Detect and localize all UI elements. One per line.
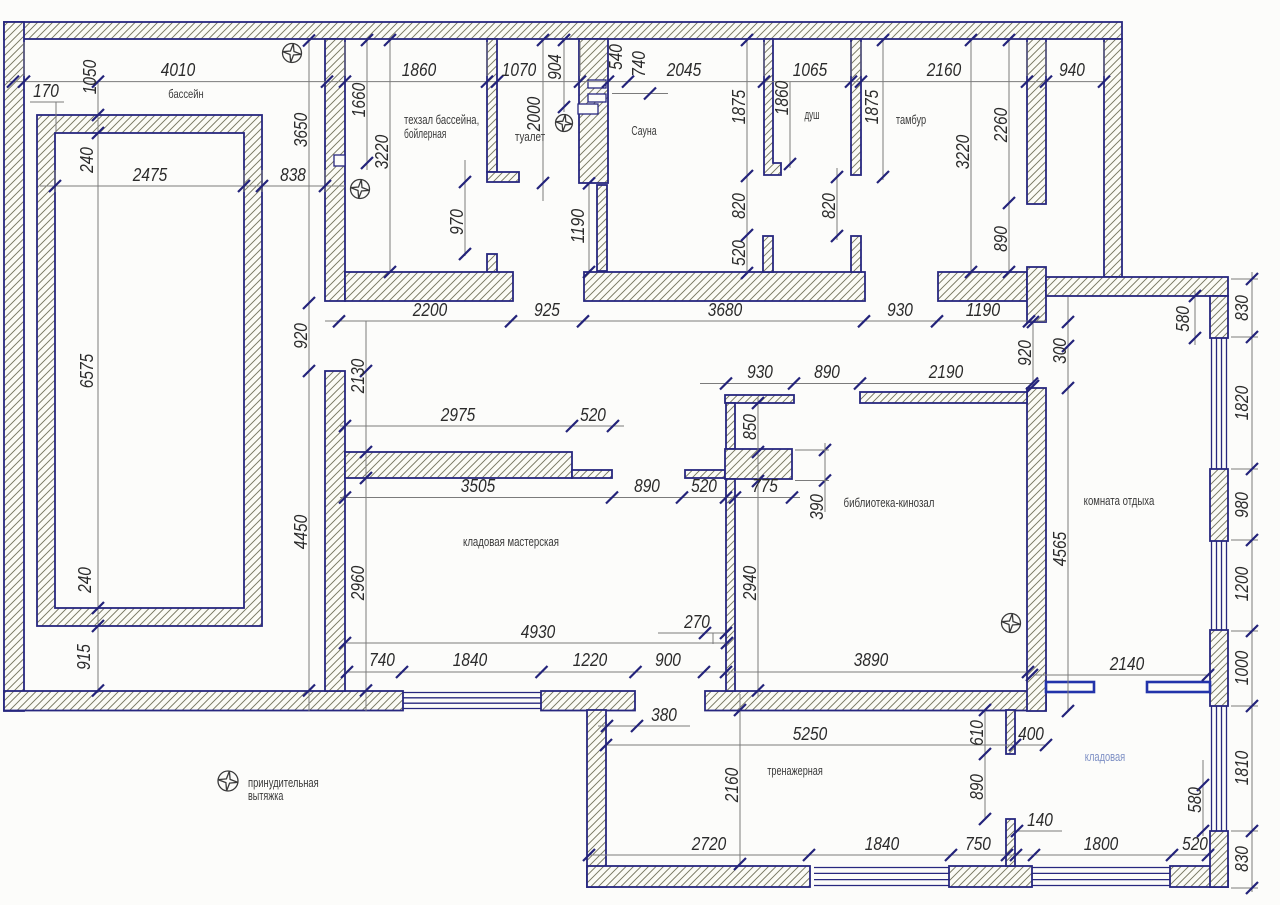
svg-text:вытяжка: вытяжка — [248, 788, 284, 803]
fan library — [1002, 614, 1021, 633]
dim line 2140 — [1032, 674, 1208, 676]
wall: outer left — [4, 22, 24, 711]
wall: shower west wall with foot — [764, 39, 781, 175]
leader for 270 — [658, 632, 726, 634]
svg-text:2140: 2140 — [1109, 654, 1144, 674]
wall: sauna-shower south band — [584, 272, 865, 301]
leader for 380 — [598, 725, 690, 727]
svg-text:1050: 1050 — [80, 60, 100, 94]
leader for 140 — [1017, 830, 1062, 832]
dim vline 2160 gym — [739, 694, 741, 864]
svg-text:1875: 1875 — [862, 89, 882, 124]
svg-text:библиотека-кинозал: библиотека-кинозал — [844, 495, 935, 510]
svg-text:6575: 6575 — [77, 353, 97, 388]
svg-text:4450: 4450 — [291, 515, 311, 549]
svg-text:тренажерная: тренажерная — [767, 763, 823, 778]
leader for 540/740 — [612, 93, 668, 95]
svg-text:520: 520 — [691, 476, 717, 496]
wall: library west wall upper — [726, 403, 735, 449]
ticks shower west line — [741, 170, 753, 279]
dim vline pool axis — [97, 82, 99, 693]
dim vline 1875/820/520 shower-w — [746, 40, 748, 273]
pool inner floor — [55, 133, 244, 608]
ticks 2960 — [360, 365, 372, 697]
ticks pool line — [92, 109, 104, 697]
ticks 390 — [819, 444, 831, 487]
wall: sauna west thin lower wall — [597, 185, 607, 271]
svg-text:бассейн: бассейн — [168, 87, 203, 101]
wall: gym south band — [587, 866, 810, 887]
svg-text:890: 890 — [967, 774, 987, 800]
wall: lounge north band — [1046, 277, 1228, 296]
wall: east wall block top-window gap1 — [1210, 469, 1228, 541]
svg-text:850: 850 — [740, 414, 760, 440]
svg-text:3680: 3680 — [708, 300, 742, 320]
svg-text:1875: 1875 — [729, 89, 749, 124]
ticks 1190 sauna — [583, 177, 595, 278]
wall: south band under library — [705, 691, 1046, 711]
ticks 380 — [601, 720, 643, 732]
dim vline 300/4565 — [1067, 297, 1069, 711]
dim vline 850/2940 — [757, 397, 759, 697]
svg-text:2045: 2045 — [666, 60, 702, 80]
sauna niche 1 — [588, 80, 606, 88]
dim vline 3220 tambour — [970, 40, 972, 272]
window: lounge east upper — [1212, 338, 1227, 469]
svg-text:3505: 3505 — [461, 476, 496, 496]
svg-text:бойлерная: бойлерная — [404, 126, 446, 141]
svg-text:820: 820 — [729, 193, 749, 219]
svg-text:830: 830 — [1232, 846, 1252, 872]
dim vline 1860 shower — [789, 82, 791, 168]
dim vline right chain — [1251, 272, 1253, 892]
ticks line 383 — [720, 378, 1038, 390]
svg-text:1220: 1220 — [573, 650, 607, 670]
dim ext 390 bottom — [795, 480, 829, 482]
wall: outer top — [4, 22, 1122, 39]
leader for 170 drop — [55, 102, 57, 131]
svg-text:380: 380 — [651, 705, 677, 725]
svg-text:838: 838 — [280, 165, 306, 185]
ticks 610/890 — [979, 704, 991, 825]
dim line pool 2475/838 — [40, 185, 345, 187]
wall: toilet west wall foot — [487, 172, 519, 182]
svg-text:1070: 1070 — [502, 60, 536, 80]
svg-text:4930: 4930 — [521, 622, 555, 642]
dim vline 970 — [464, 160, 466, 256]
ticks shower east 820 — [831, 171, 843, 242]
ticks 1660 — [361, 34, 373, 169]
ticks 140 leader — [1011, 825, 1023, 837]
svg-text:300: 300 — [1050, 338, 1070, 364]
ticks 3220 tambour — [965, 266, 977, 278]
svg-text:2260: 2260 — [991, 108, 1011, 143]
svg-text:520: 520 — [580, 405, 606, 425]
svg-text:техзал бассейна,: техзал бассейна, — [404, 112, 479, 127]
svg-text:3220: 3220 — [953, 135, 973, 169]
svg-text:170: 170 — [33, 81, 59, 101]
wall: workshop north wall thin ext — [572, 470, 612, 478]
dim vline 1875 shower-e — [882, 40, 884, 180]
svg-text:890: 890 — [634, 476, 660, 496]
leader for 170 — [30, 101, 64, 103]
wall: east wall block gap2 — [1210, 630, 1228, 706]
dim line bottom chain — [588, 854, 1207, 856]
svg-text:740: 740 — [629, 51, 649, 77]
svg-text:2200: 2200 — [412, 300, 447, 320]
svg-text:туалет: туалет — [515, 129, 545, 144]
wall: workshop west wall — [325, 371, 345, 691]
ticks 3220 tech — [384, 266, 396, 278]
svg-text:4010: 4010 — [161, 60, 195, 80]
svg-text:580: 580 — [1185, 787, 1205, 813]
ticks 2975/520 — [339, 420, 619, 432]
dim line bottom chain middle — [345, 671, 1028, 673]
svg-text:900: 900 — [655, 650, 681, 670]
wall: shower west lower stub — [763, 236, 773, 272]
dim line 4930 — [345, 642, 730, 644]
svg-text:1810: 1810 — [1232, 751, 1252, 785]
svg-text:5250: 5250 — [793, 724, 827, 744]
ticks 970 — [459, 176, 471, 260]
ticks shower east 1875 — [877, 171, 889, 183]
ticks 5250/400 — [600, 739, 1052, 751]
dim vline 610/890 storage — [984, 710, 986, 819]
dim line 3505/890/520/775 — [340, 497, 800, 499]
svg-text:2975: 2975 — [440, 405, 476, 425]
svg-text:890: 890 — [991, 226, 1011, 252]
window: lounge east lower — [1212, 541, 1227, 630]
fan tech room — [351, 180, 370, 199]
svg-text:1840: 1840 — [865, 834, 899, 854]
svg-text:930: 930 — [887, 300, 913, 320]
wall: storage stub upper — [1006, 710, 1015, 754]
svg-text:1860: 1860 — [772, 81, 792, 115]
svg-text:1840: 1840 — [453, 650, 487, 670]
svg-text:Сауна: Сауна — [631, 123, 657, 138]
svg-text:2000: 2000 — [524, 97, 544, 132]
svg-text:2190: 2190 — [928, 362, 963, 382]
wall: block 775 — [725, 449, 792, 479]
wall: shower east wall — [851, 39, 861, 175]
wall: pool-room east wall upper — [325, 39, 345, 301]
dim vline 920 lounge — [1032, 322, 1034, 386]
svg-text:3650: 3650 — [291, 113, 311, 147]
svg-text:душ: душ — [804, 107, 819, 122]
window: storage south — [1032, 868, 1170, 886]
ticks 4565 — [1062, 382, 1074, 717]
wall: library west wall — [726, 479, 735, 691]
svg-text:270: 270 — [683, 612, 710, 632]
svg-text:830: 830 — [1232, 295, 1252, 321]
dim line 5250/400 — [606, 744, 1046, 746]
ticks 920/300 lounge — [1027, 316, 1074, 392]
dim vline 1660 — [366, 40, 368, 170]
svg-text:920: 920 — [291, 323, 311, 349]
fan pool — [283, 44, 302, 63]
wall: pool ring — [37, 115, 262, 626]
dim line 2975/520 — [340, 425, 624, 427]
ticks vline 304 — [303, 35, 315, 697]
sauna niche 3 — [578, 104, 598, 114]
wall: tech-room south band — [345, 272, 513, 301]
ticks pool dims — [49, 180, 331, 192]
niche in pool-room east wall — [334, 155, 345, 166]
svg-text:3220: 3220 — [372, 135, 392, 169]
svg-text:970: 970 — [447, 209, 467, 235]
svg-text:520: 520 — [1182, 834, 1208, 854]
svg-text:кладовая: кладовая — [1085, 749, 1125, 764]
svg-text:2160: 2160 — [926, 60, 961, 80]
svg-text:240: 240 — [77, 147, 97, 174]
dim vline 2960 — [365, 321, 367, 711]
wall: wall 2190 north of lounge — [860, 392, 1027, 403]
svg-text:2160: 2160 — [722, 768, 742, 803]
wall: tambour east wall (2260) — [1027, 39, 1046, 204]
wall: south band middle segment — [541, 691, 635, 711]
dim vline 820 shower-e — [836, 168, 838, 240]
dim vline 3220 tech — [389, 40, 391, 272]
wall: south band left building — [4, 691, 403, 711]
dim line 930/890/2190 — [700, 383, 1033, 385]
dim vline 390 — [824, 443, 826, 512]
svg-text:940: 940 — [1059, 60, 1085, 80]
svg-text:2475: 2475 — [132, 165, 168, 185]
dim vline 580 top — [1194, 290, 1196, 345]
svg-text:930: 930 — [747, 362, 773, 382]
svg-text:1190: 1190 — [966, 300, 1000, 320]
wall: south band storage segment — [949, 866, 1032, 887]
wall: sauna west thick wall — [579, 39, 608, 183]
svg-text:920: 920 — [1015, 340, 1035, 366]
wall: tambour south band — [938, 272, 1027, 301]
svg-text:2960: 2960 — [348, 566, 368, 601]
ticks 904 — [558, 101, 570, 113]
window: gym south — [814, 868, 949, 886]
svg-text:1800: 1800 — [1084, 834, 1118, 854]
wall: entry east wall — [1104, 39, 1122, 277]
ticks line C — [339, 492, 798, 504]
svg-text:740: 740 — [369, 650, 395, 670]
svg-text:820: 820 — [819, 193, 839, 219]
dim vline 1190 sauna — [588, 183, 590, 272]
dim ext 390 top — [795, 449, 829, 451]
dim vline 2000 — [542, 40, 544, 201]
svg-text:980: 980 — [1232, 492, 1252, 518]
svg-text:540: 540 — [606, 44, 626, 70]
ticks 890 tambour — [1003, 34, 1015, 278]
ticks 2160 gym — [734, 704, 746, 870]
svg-text:904: 904 — [545, 54, 565, 80]
wall: toilet west wall — [487, 39, 497, 172]
ticks top dim line — [7, 76, 1110, 88]
ticks right chain — [1246, 273, 1258, 894]
window: storage east — [1212, 706, 1227, 831]
wall: SE corner block — [1170, 866, 1228, 887]
svg-text:1000: 1000 — [1232, 651, 1252, 685]
svg-text:1200: 1200 — [1232, 567, 1252, 601]
wall: storage stub lower — [1006, 819, 1015, 866]
fan legend — [218, 771, 238, 791]
wall: lounge west wall — [1027, 388, 1046, 711]
ticks 4930 — [339, 637, 733, 649]
svg-text:915: 915 — [74, 643, 94, 670]
svg-text:1190: 1190 — [568, 209, 588, 243]
ticks 580 bottom — [1197, 779, 1209, 837]
svg-text:750: 750 — [965, 834, 991, 854]
wall: workshop north wall thick — [345, 452, 572, 478]
dim vline 3650/920/4450 — [308, 41, 310, 712]
svg-text:925: 925 — [534, 300, 561, 320]
svg-text:4565: 4565 — [1050, 531, 1070, 566]
connector 4930/270 — [712, 633, 714, 644]
svg-text:3890: 3890 — [854, 650, 888, 670]
dim line 2200/925/3680/930/1190 — [325, 320, 1046, 322]
ticks 2000 — [537, 34, 549, 189]
svg-text:2720: 2720 — [691, 834, 726, 854]
ticks 270 — [699, 627, 732, 639]
svg-text:кладовая мастерская: кладовая мастерская — [463, 534, 559, 549]
dim vline 580 bottom — [1202, 760, 1204, 836]
svg-text:520: 520 — [729, 240, 749, 266]
fan toilet — [556, 115, 573, 132]
svg-text:580: 580 — [1173, 306, 1193, 332]
wall: junction column NW lounge — [1027, 267, 1046, 322]
svg-text:390: 390 — [807, 494, 827, 520]
dim vline 904 — [563, 40, 565, 112]
svg-text:комната отдыха: комната отдыха — [1084, 493, 1155, 508]
svg-text:2130: 2130 — [348, 359, 368, 394]
ticks 850/2940 — [752, 397, 764, 697]
svg-text:610: 610 — [967, 720, 987, 746]
ticks bottom chain mid — [341, 666, 1214, 681]
svg-text:1860: 1860 — [402, 60, 436, 80]
svg-text:140: 140 — [1027, 810, 1053, 830]
window: workshop south — [403, 693, 541, 709]
ticks bottom line — [583, 849, 1214, 861]
svg-text:1820: 1820 — [1232, 386, 1252, 420]
wall: library NW L horizontal — [725, 395, 794, 403]
ticks top of interior vlines — [384, 34, 977, 46]
sauna niche 2 — [588, 94, 606, 102]
wall: east wall block lower — [1210, 831, 1228, 887]
door leaf left of storage opening — [1046, 682, 1094, 692]
svg-text:1065: 1065 — [793, 60, 828, 80]
svg-text:1660: 1660 — [349, 83, 369, 117]
svg-text:240: 240 — [75, 567, 95, 594]
door leaf right of storage opening — [1147, 682, 1210, 692]
dim line top chain — [6, 81, 1104, 83]
svg-text:400: 400 — [1018, 724, 1044, 744]
svg-text:2940: 2940 — [740, 566, 760, 601]
wall: strip west of 775 block — [685, 470, 725, 478]
wall: toilet west wall lower stub — [487, 254, 497, 272]
wall: shower east lower stub — [851, 236, 861, 272]
svg-text:775: 775 — [752, 476, 779, 496]
dim vline 2260/890 tambour — [1008, 40, 1010, 273]
tick 540 leader — [644, 88, 656, 100]
wall: gym west wall — [587, 710, 606, 887]
ticks line B — [333, 315, 1035, 327]
wall: NE corner block — [1210, 296, 1228, 338]
ticks 1860 shower — [784, 158, 796, 170]
svg-text:тамбур: тамбур — [896, 112, 926, 127]
svg-text:890: 890 — [814, 362, 840, 382]
ticks 580 top — [1189, 290, 1201, 344]
